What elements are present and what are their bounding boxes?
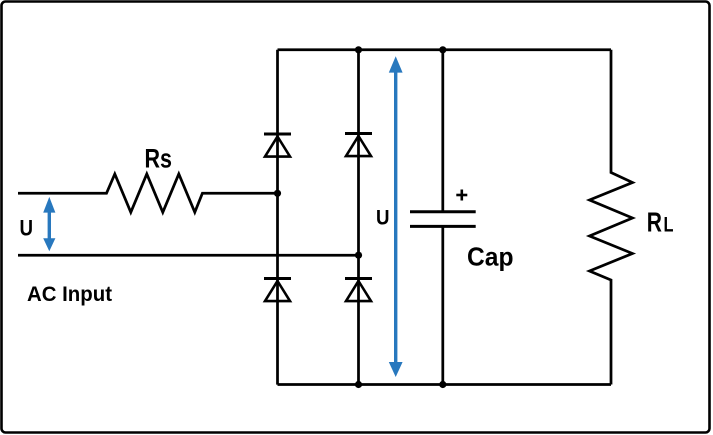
svg-text:Cap: Cap [467, 242, 514, 272]
svg-text:U: U [376, 206, 390, 229]
svg-text:AC Input: AC Input [27, 283, 112, 306]
svg-text:U: U [20, 216, 34, 241]
svg-text:L: L [664, 213, 674, 236]
svg-text:Rs: Rs [145, 143, 173, 173]
svg-text:R: R [647, 206, 662, 237]
